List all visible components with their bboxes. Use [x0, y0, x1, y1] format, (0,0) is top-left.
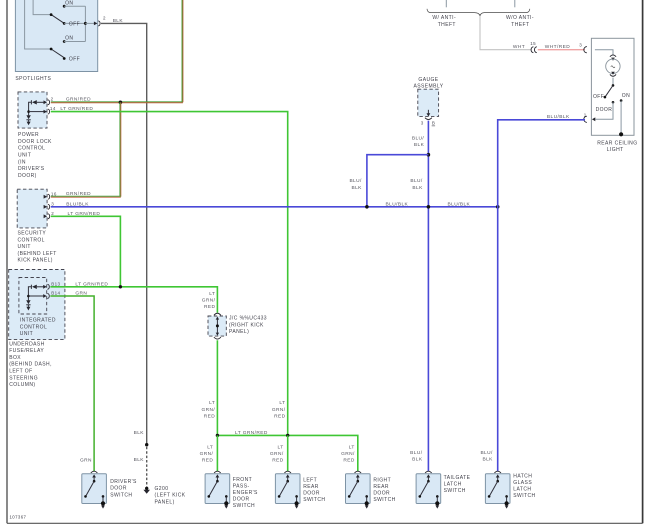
svg-text:LT: LT [349, 444, 355, 450]
junction dot bus at left rear wire [286, 434, 289, 437]
svg-text:BLK: BLK [113, 18, 124, 24]
svg-text:LT: LT [207, 444, 213, 450]
svg-text:BLK: BLK [412, 185, 423, 191]
label J/C %%UC433 [229, 316, 267, 336]
label gauge assembly [414, 77, 444, 90]
junction dot B13/security pin2 [119, 285, 122, 288]
svg-text:BLU/: BLU/ [410, 450, 423, 456]
svg-text:WHT/RED: WHT/RED [545, 44, 570, 50]
svg-text:(LEFT KICK: (LEFT KICK [155, 493, 186, 499]
svg-text:RED: RED [343, 458, 355, 464]
front passenger's door switch [205, 471, 230, 508]
svg-text:(RIGHT KICK: (RIGHT KICK [229, 322, 264, 328]
svg-text:PANEL): PANEL) [155, 500, 175, 506]
svg-text:ON: ON [622, 93, 630, 99]
svg-text:PANEL): PANEL) [229, 329, 249, 335]
svg-text:(IN: (IN [18, 159, 26, 165]
svg-text:GRN/: GRN/ [202, 407, 216, 413]
label security control unit [18, 231, 57, 264]
spotlights output collector wire [84, 6, 94, 41]
junction dot gauge wire upper [427, 153, 431, 157]
svg-text:KICK PANEL): KICK PANEL) [18, 258, 53, 264]
svg-text:BLU/: BLU/ [412, 135, 425, 141]
label W/O ANTI-THEFT [506, 15, 534, 28]
svg-text:B: B [432, 121, 435, 126]
svg-text:GRN/: GRN/ [270, 451, 284, 457]
svg-text:LT GRN/RED: LT GRN/RED [60, 106, 93, 112]
svg-text:BLU/: BLU/ [410, 178, 423, 184]
wire BLU/BLK loop left [349, 155, 428, 207]
label hatch glass latch switch [513, 474, 535, 500]
dashed BLK segment to G200 [134, 447, 147, 488]
junction dot GRN/RED [119, 101, 123, 105]
svg-text:LT GRN/RED: LT GRN/RED [235, 430, 268, 436]
svg-text:LEFT: LEFT [303, 478, 317, 484]
vertical label LT GRN/RED below bus (right rear) [341, 444, 355, 463]
svg-text:SPOTLIGHTS: SPOTLIGHTS [15, 76, 51, 82]
svg-text:REAR: REAR [373, 484, 389, 490]
svg-text:W/ ANTI-: W/ ANTI- [432, 15, 456, 21]
svg-text:2: 2 [103, 15, 106, 20]
svg-text:THEFT: THEFT [438, 22, 456, 28]
svg-text:TAILGATE: TAILGATE [444, 475, 471, 481]
svg-text:107367: 107367 [10, 515, 27, 520]
svg-text:CONTROL: CONTROL [20, 324, 47, 330]
underdash fuse/relay box (outer dashed box) [9, 270, 65, 340]
svg-text:LT: LT [279, 400, 285, 406]
svg-text:RED: RED [202, 458, 214, 464]
svg-text:POWER: POWER [18, 132, 39, 138]
svg-text:ENGER'S: ENGER'S [233, 490, 258, 496]
tailgate latch switch [416, 471, 441, 508]
svg-text:LT: LT [278, 444, 284, 450]
svg-text:W/O ANTI-: W/O ANTI- [506, 15, 534, 21]
svg-text:BLK: BLK [414, 142, 425, 148]
svg-text:ASSEMBLY: ASSEMBLY [414, 84, 444, 90]
svg-text:LIGHT: LIGHT [607, 147, 624, 153]
svg-text:B13: B13 [51, 281, 60, 286]
label right rear door switch [373, 478, 395, 504]
spotlights box [15, 0, 97, 72]
svg-text:BLU/: BLU/ [349, 178, 362, 184]
svg-text:BLK: BLK [351, 185, 362, 191]
svg-text:DOOR: DOOR [373, 491, 390, 497]
svg-text:BLU/BLK: BLU/BLK [448, 201, 471, 207]
junction dots on BLU/BLK bus [365, 205, 369, 209]
power door lock pin 14 connector [44, 106, 56, 114]
svg-text:B14: B14 [51, 291, 60, 296]
svg-text:SWITCH: SWITCH [303, 497, 325, 503]
svg-text:3: 3 [421, 120, 424, 125]
left rear door switch [275, 471, 300, 508]
wire BLK from spotlights to splice [101, 18, 147, 445]
integrated pin B14 connector [43, 291, 60, 299]
wire BLU/BLK rear ceiling pin1 down to hatch glass latch switch [480, 114, 585, 471]
svg-text:THEFT: THEFT [511, 22, 529, 28]
svg-text:BLU/BLK: BLU/BLK [66, 201, 89, 207]
svg-text:RED: RED [204, 304, 216, 310]
label rear ceiling light [597, 140, 637, 153]
wire BLU/BLK horizontal bus from security pin 3 [51, 201, 498, 207]
vertical label LT GRN/RED below bus (left rear) [270, 444, 284, 463]
svg-text:PASS-: PASS- [233, 484, 250, 490]
svg-text:SWITCH: SWITCH [110, 492, 132, 498]
anti-theft brace [427, 9, 530, 16]
vertical label LT GRN/RED above bus (left rear) [272, 400, 286, 419]
wire LT GRN/RED security pin2 down to B13 junction [51, 211, 121, 287]
svg-text:3: 3 [579, 42, 582, 47]
svg-text:GRN: GRN [75, 291, 87, 297]
wire LT GRN/RED B13 to J/C [50, 281, 217, 312]
svg-text:GRN/: GRN/ [272, 407, 286, 413]
svg-text:DRIVER'S: DRIVER'S [110, 479, 137, 485]
svg-text:3: 3 [51, 202, 54, 207]
svg-text:FRONT: FRONT [233, 477, 252, 483]
hatch glass latch switch [485, 471, 510, 508]
svg-text:LT: LT [209, 291, 215, 297]
svg-text:LT GRN/RED: LT GRN/RED [75, 281, 108, 287]
svg-text:DOOR: DOOR [596, 107, 613, 113]
power door lock control unit box U1 [18, 92, 47, 128]
svg-text:BLK: BLK [134, 457, 145, 463]
junction connector J/C %%UC433 [208, 313, 226, 339]
label integrated control unit [20, 318, 56, 338]
power door lock pin 2 connector [44, 97, 54, 105]
wire LT GRN/RED bottom bus [217, 430, 357, 471]
svg-text:SECURITY: SECURITY [18, 231, 47, 237]
svg-text:DOOR: DOOR [110, 486, 127, 492]
svg-text:RED: RED [272, 458, 284, 464]
svg-text:14: 14 [50, 106, 56, 111]
svg-text:DOOR): DOOR) [18, 173, 37, 179]
svg-text:BLU/BLK: BLU/BLK [386, 201, 409, 207]
svg-text:CONTROL: CONTROL [18, 146, 45, 152]
svg-text:BLU/BLK: BLU/BLK [547, 114, 570, 120]
security pin 3 connector [44, 202, 55, 210]
svg-text:GRN/RED: GRN/RED [66, 97, 91, 103]
svg-text:LT GRN/RED: LT GRN/RED [68, 211, 101, 217]
vertical wire label LT GRN/RED above J/C [202, 291, 216, 310]
wire LT GRN/RED J/C down to bus [216, 340, 218, 435]
svg-text:UNIT: UNIT [18, 153, 31, 159]
in-line connector 15 [530, 41, 537, 53]
rear ceiling light internal wiring top [595, 50, 616, 61]
svg-text:J/C %%UC433: J/C %%UC433 [229, 316, 267, 322]
splice dot on BLK [145, 443, 148, 446]
svg-text:(BEHIND LEFT: (BEHIND LEFT [18, 251, 57, 257]
rear ceiling light box [591, 38, 634, 135]
svg-text:DOOR: DOOR [233, 497, 250, 503]
svg-text:SWITCH: SWITCH [513, 493, 535, 499]
gauge assembly pin 3/B connector [421, 110, 436, 126]
integrated control unit box (inner dashed box) [19, 278, 47, 315]
label W/ ANTI-THEFT [432, 15, 456, 28]
anti-theft option stub wires [445, 0, 447, 7]
wire WHT from brace [480, 16, 531, 50]
svg-text:G200: G200 [155, 486, 169, 492]
svg-text:GRN/: GRN/ [341, 451, 355, 457]
rear ceiling light ON wire to case ground [619, 101, 623, 137]
svg-text:SWITCH: SWITCH [233, 503, 255, 509]
rear ceiling light switch [593, 84, 630, 113]
svg-text:LEFT OF: LEFT OF [9, 369, 32, 375]
svg-text:BLK: BLK [482, 457, 493, 463]
spotlights pin 2 connector [94, 15, 106, 26]
bulb rear ceiling light [606, 59, 620, 85]
svg-text:BLK: BLK [412, 457, 423, 463]
spotlight switch 1 (upper) [33, 0, 85, 28]
svg-text:LATCH: LATCH [444, 482, 462, 488]
rear ceiling light DOOR wire to pin 1 [592, 102, 613, 121]
svg-text:BLU/: BLU/ [480, 450, 493, 456]
svg-text:RED: RED [204, 413, 216, 419]
svg-text:COLUMN): COLUMN) [9, 382, 35, 388]
svg-text:WHT: WHT [513, 44, 525, 50]
security control unit box U2 [17, 189, 47, 228]
wire BLU/BLK gauge down to tailgate latch switch [410, 121, 428, 471]
svg-text:DOOR LOCK: DOOR LOCK [18, 139, 52, 145]
svg-text:REAR CEILING: REAR CEILING [597, 140, 637, 146]
svg-text:SWITCH: SWITCH [373, 497, 395, 503]
svg-text:BLK: BLK [134, 430, 145, 436]
label left rear door switch [303, 478, 325, 504]
spotlight switch 2 (lower) [25, 0, 86, 63]
integrated control unit internal diode circuit [26, 285, 43, 311]
wire GRN/RED pin2 horizontal + up to page top [51, 0, 183, 103]
rear ceiling light pin 3 connector [579, 42, 595, 53]
svg-text:DOOR: DOOR [303, 491, 320, 497]
svg-text:15: 15 [530, 41, 536, 46]
svg-text:ON: ON [65, 0, 73, 6]
gauge assembly box [418, 89, 439, 116]
svg-text:STEERING: STEERING [9, 375, 38, 381]
svg-text:OFF: OFF [69, 57, 80, 63]
svg-text:LATCH: LATCH [513, 487, 531, 493]
wire stub LT GRN/RED to front passenger switch [216, 435, 218, 471]
security pin 16 connector [44, 191, 57, 199]
wire WHT/RED to rear ceiling light [538, 44, 585, 50]
wire GRN/RED branch down to security pin 16 [51, 102, 121, 197]
junction dot bus at front passenger wire [216, 434, 219, 437]
wire GRN B14 down to driver's door switch [50, 291, 94, 471]
svg-text:UNIT: UNIT [20, 331, 33, 337]
vertical label LT GRN/RED above bus (front passenger) [202, 400, 216, 419]
integrated pin B13 connector [43, 281, 60, 289]
svg-text:GRN/: GRN/ [202, 297, 216, 303]
svg-text:GLASS: GLASS [513, 480, 532, 486]
svg-text:GRN/: GRN/ [200, 451, 214, 457]
svg-text:BOX: BOX [9, 355, 21, 361]
svg-text:GRN/RED: GRN/RED [66, 191, 91, 197]
label tailgate latch switch [444, 475, 471, 494]
driver's door switch [82, 471, 107, 508]
svg-text:GAUGE: GAUGE [418, 77, 438, 83]
svg-text:OFF: OFF [593, 94, 604, 100]
svg-text:UNDERDASH: UNDERDASH [9, 341, 44, 347]
svg-text:RIGHT: RIGHT [373, 478, 391, 484]
svg-text:GRN: GRN [80, 457, 92, 463]
svg-text:ON: ON [65, 36, 73, 42]
svg-text:2: 2 [51, 211, 54, 216]
svg-text:INTEGRATED: INTEGRATED [20, 318, 56, 324]
label driver's door switch [110, 479, 137, 499]
svg-text:16: 16 [51, 191, 57, 196]
svg-text:FUSE/RELAY: FUSE/RELAY [9, 348, 44, 354]
svg-text:OFF: OFF [69, 22, 80, 28]
rear ceiling light pin 1 connector [584, 112, 587, 122]
svg-text:LT: LT [209, 400, 215, 406]
svg-text:SWITCH: SWITCH [444, 488, 466, 494]
wire LT GRN/RED pin14 to left rear door switch [51, 106, 288, 436]
vertical label LT GRN/RED below bus (front passenger) [200, 444, 214, 463]
svg-text:DRIVER'S: DRIVER'S [18, 166, 45, 172]
label front passenger's door switch [233, 477, 258, 509]
label power door lock control unit [18, 132, 52, 179]
right rear door switch [346, 471, 371, 508]
wire stub LT GRN/RED to left rear switch [287, 435, 289, 471]
svg-text:UNIT: UNIT [18, 244, 31, 250]
svg-text:(BEHIND DASH,: (BEHIND DASH, [9, 362, 52, 368]
svg-text:CONTROL: CONTROL [18, 237, 45, 243]
svg-text:2: 2 [51, 97, 54, 102]
svg-text:HATCH: HATCH [513, 474, 532, 480]
security pin 2 connector [44, 211, 55, 219]
ground G200 (left kick panel) [143, 486, 185, 506]
svg-text:REAR: REAR [303, 484, 319, 490]
svg-text:RED: RED [274, 413, 286, 419]
power door lock internal diode circuit [26, 100, 44, 125]
label underdash fuse/relay box [9, 341, 52, 388]
